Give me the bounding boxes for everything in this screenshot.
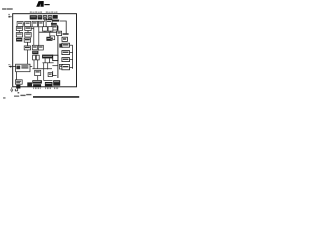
bottom-left dark block	[16, 85, 20, 89]
wire horizontal bus mid	[39, 31, 57, 33]
program flash box	[16, 33, 22, 38]
port driver block row1 C	[43, 15, 47, 19]
GND pin stub left	[8, 16, 10, 18]
bottom band block right2	[53, 80, 60, 86]
footnote word 1	[14, 96, 19, 97]
8-bit data bus vertical	[57, 26, 59, 78]
pin hatch below bottom border 2	[45, 87, 51, 89]
crystal pin bottom	[11, 87, 13, 92]
wire decoder down	[26, 50, 28, 64]
wire prog logic right tick	[30, 65, 32, 67]
bottom band block small left	[27, 82, 32, 86]
row2 box latch D	[39, 21, 44, 27]
status register dark bar	[42, 55, 53, 59]
interrupt unit box	[52, 25, 57, 30]
wire L bottom left of bus	[53, 71, 57, 76]
instruction decoder box	[24, 46, 30, 50]
wire status reg down 2	[49, 58, 51, 62]
mcu ctrl block	[51, 23, 57, 25]
port driver block row1 B	[38, 15, 43, 19]
right column box 1 (osc)	[62, 37, 67, 41]
port driver block row1 A	[30, 15, 37, 19]
wire sp to sram	[27, 31, 29, 33]
footnote dot	[18, 92, 20, 93]
left dark label block (x16 y38)	[16, 38, 22, 42]
bottom band block mid	[32, 80, 42, 83]
pin hatch below bottom border 1	[33, 87, 40, 89]
wire box2 tick	[70, 44, 73, 46]
wire pc to flash	[18, 31, 20, 33]
wire into bus left	[52, 65, 58, 67]
bottom-left timer stem	[16, 72, 18, 80]
row2 box latch C	[32, 21, 37, 27]
wire box4 tick	[70, 59, 73, 61]
small box mid row3 C	[57, 31, 62, 35]
footnote word 3	[26, 94, 31, 95]
wire sp to center vertical	[31, 27, 34, 29]
sram box	[25, 33, 31, 38]
right rail vertical	[72, 45, 74, 69]
bus T bar	[63, 33, 69, 34]
title text "Block Diagram"	[2, 8, 7, 9]
pin hatch below bottom border 3	[54, 87, 58, 89]
logo dash	[44, 4, 49, 5]
right column box 4	[62, 58, 70, 62]
wire crossing vertical 2	[47, 63, 49, 69]
small box mid row3 A	[43, 27, 48, 31]
wire status reg down 1	[44, 58, 46, 62]
main border rectangle	[13, 14, 77, 87]
wire tick to timer block	[49, 32, 51, 37]
white box left of bus	[53, 55, 58, 60]
small box mid row3 B	[48, 27, 53, 31]
wire tick box A down	[44, 31, 46, 32]
bottom-left stem below border	[17, 89, 19, 91]
alu lower box right	[36, 55, 39, 60]
wire horizontal under status	[42, 62, 53, 64]
programming logic big box left	[16, 64, 30, 72]
wire latch A to B	[23, 23, 25, 25]
small box low center right	[48, 73, 52, 77]
program counter box	[16, 27, 22, 31]
wire box5 tick	[70, 66, 73, 68]
bottom-left box	[15, 80, 22, 84]
data bus top bar	[52, 20, 59, 22]
gp register box A	[32, 45, 37, 50]
wire from small box down	[44, 80, 53, 82]
right column box 5	[62, 65, 70, 70]
wire connector row2	[44, 19, 46, 22]
wire alu down right	[37, 60, 39, 69]
wire ir down	[27, 42, 29, 46]
wire timer down	[37, 76, 39, 81]
port driver block row1 D	[48, 15, 53, 19]
footnote word 2	[20, 95, 25, 96]
VCC pin stub left	[8, 13, 10, 16]
bottom band block right1	[45, 82, 53, 86]
page background	[0, 0, 80, 104]
wire crossing vertical 1	[43, 63, 45, 81]
timing dark block	[46, 37, 52, 41]
footer rule	[33, 96, 79, 98]
wire box3 tick	[70, 52, 73, 54]
wire center vertical 2	[38, 27, 40, 46]
row2 box latch B	[25, 22, 31, 27]
row2 box latch A	[17, 22, 23, 27]
wire center vertical 1	[33, 27, 35, 46]
stack pointer box	[25, 27, 31, 31]
port driver block row1 E	[53, 15, 58, 19]
wire tick box B down	[50, 31, 52, 32]
pin labels above top border (right cluster)	[46, 12, 48, 13]
wire interrupt to bus	[57, 26, 58, 28]
small box right of bus B	[59, 64, 62, 69]
right column box 2	[62, 43, 70, 47]
timer box low center	[35, 70, 41, 75]
gp register box B	[38, 45, 43, 50]
bus L wire to right	[60, 21, 66, 33]
spi arrow into border	[9, 66, 16, 68]
wire alu down left	[33, 60, 35, 69]
right column box 3	[62, 51, 70, 55]
alu lower box left	[33, 55, 36, 60]
instruction reg box	[24, 38, 30, 42]
logo mark top-right	[36, 1, 44, 7]
alu dark block	[32, 51, 38, 55]
wire horizontal mid low	[32, 68, 52, 70]
small box right of bus A	[59, 44, 63, 48]
page number dash	[3, 97, 5, 98]
small box left of bus	[50, 36, 54, 40]
pin labels above top border (left cluster)	[30, 12, 32, 13]
row2 box tall E	[46, 20, 52, 27]
